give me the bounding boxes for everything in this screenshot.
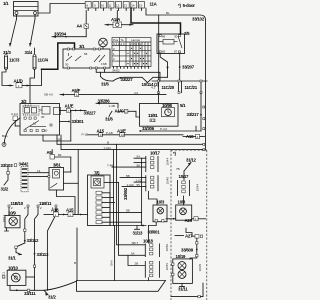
svg-text:33/286: 33/286 — [98, 98, 111, 103]
svg-text:34/42: 34/42 — [19, 162, 30, 167]
svg-text:33/692: 33/692 — [123, 187, 128, 200]
svg-text:A5: A5 — [47, 150, 53, 155]
svg-text:0 1 2: 0 1 2 — [113, 42, 120, 46]
svg-text:31/11: 31/11 — [178, 287, 188, 292]
bottom wire in 5-door — [171, 283, 203, 298]
svg-text:B: B — [107, 141, 109, 145]
svg-text:58: 58 — [84, 52, 88, 56]
clock 7/5 — [91, 170, 104, 188]
wire 11B/11 to 33/113 — [33, 215, 49, 291]
svg-text:31/4: 31/4 — [25, 50, 33, 55]
wire 10/3 to A27 — [186, 228, 195, 236]
wire 10/3 ground stub — [148, 222, 156, 226]
svg-text:12: 12 — [116, 4, 120, 8]
svg-text:33/102: 33/102 — [192, 17, 205, 22]
wire to lamp connectors — [147, 226, 149, 244]
wire 33/111 — [10, 285, 44, 296]
cluster pin stub wires — [102, 193, 142, 222]
wire 3/1 pin stub — [104, 69, 106, 72]
svg-text:P-1B: P-1B — [106, 131, 113, 135]
svg-text:10/3: 10/3 — [178, 199, 186, 204]
svg-text:SB-7: SB-7 — [132, 241, 139, 245]
svg-text:31/1: 31/1 — [8, 255, 16, 260]
svg-text:A1/A: A1/A — [111, 17, 121, 22]
svg-text:A26: A26 — [185, 218, 193, 223]
small box beside 3/2 — [54, 108, 61, 115]
wire 3/61 bottom — [56, 190, 75, 215]
svg-text:33/306: 33/306 — [142, 126, 155, 131]
connector A1/D — [8, 79, 23, 89]
svg-text:87: 87 — [174, 49, 178, 53]
connector row 11C/20 11C/21 — [151, 80, 207, 94]
svg-text:10/35: 10/35 — [198, 264, 202, 272]
svg-text:A27: A27 — [185, 234, 193, 239]
svg-text:SB 4.0: SB 4.0 — [44, 93, 53, 97]
svg-text:1-4B: 1-4B — [109, 104, 115, 108]
wire arc to frame — [44, 281, 77, 290]
wire 33/306 — [139, 126, 201, 132]
battery 1/1 — [3, 1, 38, 16]
wire battery to fuse box — [38, 4, 85, 14]
svg-text:10/3: 10/3 — [157, 199, 165, 204]
connector 11C/3 — [5, 55, 21, 70]
wire 11C/20 to clock — [158, 93, 160, 104]
svg-text:11C/21: 11C/21 — [185, 85, 198, 90]
svg-text:58: 58 — [137, 163, 141, 167]
ground 31/11 — [178, 283, 188, 291]
svg-text:10/44: 10/44 — [196, 184, 200, 192]
svg-text:*) 5-door: *) 5-door — [178, 3, 195, 8]
wire fuse to relay 2/5 — [131, 8, 181, 34]
svg-text:B 4.0: B 4.0 — [25, 104, 32, 108]
wire relay 85 down — [160, 54, 168, 78]
svg-text:5B: 5B — [126, 174, 130, 178]
wire 3/61 right — [64, 172, 79, 183]
instrument cluster box — [88, 175, 111, 226]
ground ref 31/2 lower — [44, 290, 56, 299]
dashed 5-door section border — [171, 150, 207, 300]
lamp 10/3 in 5-door — [176, 196, 192, 220]
wire 3/1 to 11C/20 — [96, 69, 160, 81]
stalk switch 3/61 — [48, 162, 64, 190]
wire 33/301 — [60, 119, 85, 124]
ground 31/6 under A5/F rail — [101, 72, 114, 86]
wire stack to frame box — [147, 278, 149, 281]
connector A1/A — [105, 11, 133, 28]
svg-text:5/1: 5/1 — [180, 103, 186, 108]
wire 33/227 to 10/114 — [113, 77, 168, 87]
wire 11B/11 right down — [47, 215, 56, 291]
connector 10/17 in 5-door — [178, 171, 200, 196]
svg-text:Bk: Bk — [58, 153, 62, 157]
svg-text:11C/4: 11C/4 — [38, 58, 49, 63]
ground lead 31/4 — [25, 15, 36, 56]
ground lead 31/3 — [3, 15, 17, 56]
svg-text:10/51: 10/51 — [165, 263, 169, 271]
svg-text:10/12: 10/12 — [2, 214, 6, 222]
connector 10/17 upper — [146, 151, 170, 172]
svg-text:31/13: 31/13 — [133, 230, 144, 235]
svg-text:11C/3: 11C/3 — [9, 58, 20, 63]
svg-text:14: 14 — [131, 4, 135, 8]
wire fuse to 33/102 — [146, 8, 206, 24]
svg-text:33/227: 33/227 — [121, 77, 134, 82]
svg-text:33/112: 33/112 — [27, 238, 39, 243]
courtesy lamp 10/10 — [2, 265, 35, 285]
lamp 10/19 — [172, 254, 202, 283]
svg-text:31/2: 31/2 — [48, 294, 56, 299]
relay 2/5 — [157, 31, 190, 54]
vertical harness runs — [110, 144, 146, 280]
svg-text:A15: A15 — [66, 208, 74, 213]
connector A1/E inline — [103, 129, 183, 138]
stub wires into 10/17 — [107, 154, 146, 225]
wire 11C/3 to A1/D — [2, 69, 13, 86]
svg-text:15: 15 — [139, 4, 143, 8]
svg-text:55: 55 — [137, 183, 141, 187]
terminal strip 34/42 — [19, 162, 30, 192]
svg-text:A18: A18 — [51, 208, 59, 213]
switch position table — [112, 38, 151, 67]
wires 34/42 to 3/61 — [28, 169, 49, 177]
svg-text:14: 14 — [37, 169, 41, 173]
connector 10/18 with 10/52 — [143, 239, 169, 257]
wire A1/D to light switch feed — [22, 43, 75, 87]
svg-text:BL: BL — [166, 11, 170, 15]
svg-text:30: 30 — [41, 115, 45, 119]
ground for 10/9 — [5, 228, 9, 231]
svg-text:P-4.0: P-4.0 — [160, 127, 168, 131]
svg-text:7/5: 7/5 — [94, 170, 100, 175]
svg-text:86: 86 — [162, 35, 166, 39]
svg-text:10/17: 10/17 — [150, 151, 161, 156]
svg-text:a b: a b — [121, 42, 126, 46]
svg-text:10/18: 10/18 — [143, 239, 154, 244]
wire 33/286 — [96, 98, 118, 108]
cluster pin stack — [96, 191, 102, 224]
svg-text:1SB: 1SB — [101, 62, 107, 66]
svg-text:33/301: 33/301 — [72, 119, 85, 124]
svg-text:4.0: 4.0 — [134, 91, 139, 95]
connector A15 — [82, 129, 105, 137]
svg-text:A4: A4 — [77, 24, 83, 29]
svg-text:1/1: 1/1 — [3, 1, 9, 6]
svg-text:7-4B: 7-4B — [107, 163, 113, 167]
ground lead 31/12 — [176, 158, 197, 172]
ground 31/6 lower — [105, 111, 113, 121]
svg-text:10/10: 10/10 — [8, 265, 19, 270]
wire stubs into 5-door section — [166, 218, 184, 236]
svg-text:11A: 11A — [150, 2, 158, 7]
connector A16 — [183, 134, 205, 139]
connector 11C/4 — [33, 48, 49, 70]
svg-text:30: 30 — [174, 35, 178, 39]
svg-text:54: 54 — [137, 154, 141, 158]
wire to ground 31/1 — [8, 243, 25, 260]
connector 11B/10 — [8, 201, 29, 215]
svg-text:33/103: 33/103 — [1, 163, 14, 168]
svg-text:50: 50 — [44, 129, 48, 133]
svg-text:33/217: 33/217 — [187, 112, 200, 117]
svg-text:Y-GN: Y-GN — [104, 146, 111, 150]
svg-text:33/227: 33/227 — [84, 110, 97, 115]
svg-text:7B: 7B — [176, 167, 180, 171]
svg-text:1-52: 1-52 — [136, 178, 142, 182]
svg-text:c d e f g: c d e f g — [131, 42, 142, 46]
light switch 3/1 — [63, 44, 110, 69]
svg-text:33/609: 33/609 — [181, 247, 194, 252]
svg-text:10/40: 10/40 — [165, 177, 169, 185]
svg-text:A 1/4: A 1/4 — [11, 112, 18, 116]
ground 31/13 — [110, 225, 146, 236]
svg-text:3/61: 3/61 — [53, 162, 61, 167]
svg-text:15: 15 — [33, 122, 37, 126]
svg-text:31/12: 31/12 — [186, 158, 197, 163]
connector A1/C — [115, 109, 140, 117]
svg-text:11: 11 — [108, 4, 111, 8]
svg-text:31/6: 31/6 — [101, 82, 109, 87]
svg-text:B-N: B-N — [110, 260, 114, 265]
wire 11C/4 to ignition 3/2 — [30, 69, 35, 104]
connector 10/51 — [145, 261, 169, 278]
fuse box 11A — [85, 2, 157, 11]
svg-text:31/2: 31/2 — [1, 187, 9, 192]
connector A15 inline lower — [44, 208, 59, 217]
key linkage arc — [2, 118, 20, 147]
wire 33/204 — [52, 32, 86, 38]
lamp symbol switch illumination — [99, 38, 108, 49]
connector 10/40 — [146, 175, 170, 191]
svg-text:4.0: 4.0 — [151, 118, 156, 122]
svg-text:3/1: 3/1 — [79, 44, 85, 49]
courtesy lamp 10/9 — [2, 211, 20, 228]
svg-text:85: 85 — [162, 49, 166, 53]
connector A5 — [47, 150, 71, 172]
clock unit 10/98 box — [140, 103, 179, 126]
connector A1/4 — [11, 112, 20, 126]
connector A26 — [185, 217, 206, 223]
connector A18 inline — [58, 208, 87, 217]
connector 11B/11 — [37, 201, 57, 215]
svg-text:2B: 2B — [135, 262, 139, 266]
wire A5/F rail — [60, 88, 166, 97]
svg-text:5A: 5A — [131, 252, 135, 256]
wire ignition 50 down — [43, 110, 71, 141]
right side bus — [203, 24, 207, 300]
wire 33/609 — [181, 238, 198, 257]
wire cluster to frame — [76, 228, 78, 281]
svg-text:10/19: 10/19 — [176, 254, 187, 259]
svg-text:33/207: 33/207 — [182, 65, 195, 70]
connector A1/E — [60, 103, 97, 115]
svg-text:11C/20: 11C/20 — [162, 85, 175, 90]
wire relay 87 to 33/207 — [179, 54, 195, 81]
wires ignition to lamp rail — [57, 135, 205, 215]
svg-text:11/81: 11/81 — [148, 113, 158, 118]
svg-text:33/111: 33/111 — [24, 291, 36, 296]
connector A4 — [77, 11, 89, 37]
svg-text:5B: 5B — [126, 209, 130, 213]
wire 11C/21 to 33/217 — [187, 93, 202, 131]
wire 11B/10 to 33/112 — [24, 215, 39, 244]
frame outline box — [77, 281, 166, 292]
connector 33/103 — [1, 163, 17, 192]
wire feed to 11C/20 — [158, 15, 160, 81]
svg-text:P-1B: P-1B — [82, 133, 89, 137]
connector A27 — [185, 234, 203, 239]
svg-text:13: 13 — [124, 4, 128, 8]
ignition switch 3/2 — [20, 99, 60, 135]
svg-text:30: 30 — [65, 63, 69, 67]
svg-text:10: 10 — [101, 4, 105, 8]
lamp 10/3 left — [148, 191, 167, 222]
clock 7/5 output — [104, 181, 119, 183]
svg-text:10/52: 10/52 — [165, 244, 169, 252]
svg-text:31/6: 31/6 — [105, 116, 113, 121]
svg-text:1-GR: 1-GR — [127, 183, 135, 187]
svg-text:B: B — [74, 261, 76, 265]
svg-text:33/601: 33/601 — [148, 230, 161, 235]
svg-text:4:2: 4:2 — [151, 86, 156, 90]
svg-text:A1/E: A1/E — [65, 103, 74, 108]
svg-text:10/44: 10/44 — [165, 158, 169, 166]
